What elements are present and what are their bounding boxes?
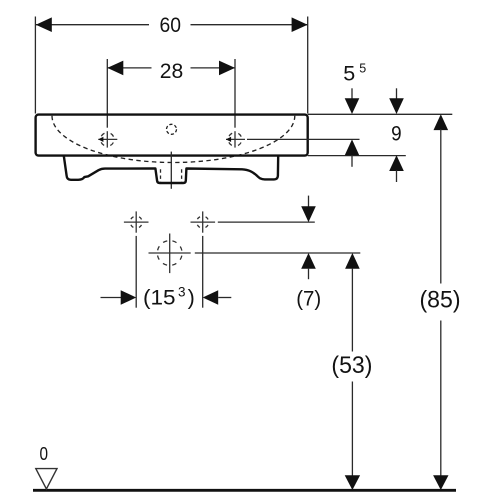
dimension 53 line upper xyxy=(351,268,353,352)
extension line right of 60 xyxy=(307,17,309,114)
left mounting hole dashed circle xyxy=(130,216,142,228)
mounting holes line extended right xyxy=(218,221,315,223)
drain centerline xyxy=(170,152,172,189)
pedestal and trap outline xyxy=(64,156,278,183)
dimension 5.5 down arrow xyxy=(351,88,353,100)
dimension 9 down arrow xyxy=(396,88,398,100)
right tap hole mini arrow xyxy=(226,137,231,142)
drain line extended right xyxy=(195,252,360,254)
extension line left tap hole xyxy=(106,59,108,128)
dimension 28 line xyxy=(107,67,235,69)
drain symbol dashed circle xyxy=(157,241,182,266)
tap hole line extended right xyxy=(247,138,360,140)
dimension 15.3 right arrowhead xyxy=(203,290,219,305)
right mounting hole cross xyxy=(191,211,216,232)
dimension 28 right arrowhead xyxy=(219,61,235,76)
washbasin body outline xyxy=(36,115,308,156)
dimension 7 up arrow xyxy=(301,253,316,269)
dimension 7 down arrow xyxy=(308,196,310,207)
dimension 15.3 left arrowhead xyxy=(121,290,137,305)
svg-text:28: 28 xyxy=(160,59,184,83)
svg-text:(53): (53) xyxy=(331,352,372,379)
dimension 60 line xyxy=(36,24,308,26)
dimension 28 left arrowhead xyxy=(107,61,123,76)
dimension 53 top arrowhead xyxy=(345,253,360,269)
dimension 85 line upper xyxy=(440,129,442,284)
extension line left of 60 xyxy=(34,17,36,114)
overflow hole dashed circle xyxy=(167,124,177,134)
dimension 5.5 up arrow xyxy=(345,139,360,155)
dimension 15.3 line left tail xyxy=(101,297,122,299)
svg-text:60: 60 xyxy=(160,13,182,37)
right tap hole dashed circle xyxy=(228,133,242,147)
dimension 60 right arrowhead xyxy=(292,17,308,32)
svg-text:0: 0 xyxy=(40,443,49,464)
dimension 60 left arrowhead xyxy=(36,17,52,32)
drain box inner dashed lines xyxy=(161,169,182,182)
svg-text:3: 3 xyxy=(178,285,186,300)
dimension 53 bottom arrowhead xyxy=(345,475,360,490)
svg-text:5: 5 xyxy=(343,61,355,85)
dimension 85 bottom arrowhead xyxy=(433,475,448,490)
left tap hole cross xyxy=(98,131,117,147)
svg-text:(15: (15 xyxy=(143,285,176,309)
left mounting extension line down xyxy=(135,236,137,308)
svg-text:): ) xyxy=(188,285,195,309)
extension line right tap hole xyxy=(234,59,236,128)
datum zero triangle xyxy=(36,469,57,489)
svg-text:(7): (7) xyxy=(296,286,321,310)
floor line xyxy=(33,489,456,492)
right tap hole cross xyxy=(226,131,245,147)
basin top edge extension line right xyxy=(308,113,453,115)
basin bottom edge extension line right xyxy=(308,155,406,157)
dimension 9 up arrow xyxy=(389,155,404,171)
left mounting hole cross xyxy=(124,211,149,232)
right mounting hole dashed circle xyxy=(197,216,209,228)
left tap hole dashed circle xyxy=(101,133,115,147)
right mounting extension line down xyxy=(202,236,204,308)
svg-text:9: 9 xyxy=(391,122,402,146)
left tap hole mini arrow xyxy=(98,137,103,142)
basin bowl dashed curve xyxy=(52,116,295,163)
dimension 53 line lower xyxy=(351,382,353,477)
dimension 85 top arrowhead xyxy=(434,114,449,130)
svg-text:5: 5 xyxy=(359,61,366,75)
dimension 15.3 right tail xyxy=(218,297,231,299)
dimension 85 line lower xyxy=(440,321,442,477)
drain symbol cross xyxy=(149,234,191,274)
svg-text:(85): (85) xyxy=(420,287,461,314)
